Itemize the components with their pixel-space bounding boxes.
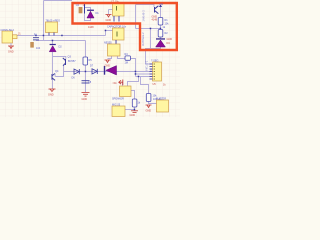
resistor R2 <box>158 30 163 38</box>
ground Gb <box>146 105 152 108</box>
wire parallel branch <box>150 29 152 49</box>
svg-text:1M: 1M <box>125 62 128 65</box>
ground under C7 <box>106 15 112 18</box>
wire Q3 to Q4 <box>55 66 63 77</box>
svg-text:4148: 4148 <box>88 26 94 29</box>
connector J1 <box>2 31 17 43</box>
svg-text:NE555: NE555 <box>104 42 112 45</box>
wire NE555 pin left <box>108 56 112 59</box>
diode D4 <box>156 38 166 47</box>
capacitor C8 <box>82 81 90 83</box>
svg-text:GND: GND <box>146 110 152 113</box>
wire R6 to B3 <box>149 102 157 104</box>
wire row1 <box>17 35 106 37</box>
capacitor C6 plate <box>84 4 86 14</box>
box B3 <box>157 100 169 112</box>
wire IC pin5 feed <box>136 76 153 78</box>
svg-text:CAPACITOR 16v: CAPACITOR 16v <box>107 26 127 29</box>
ground near U3 <box>105 60 111 63</box>
resistor R6 <box>146 94 151 102</box>
wire to capacitor box <box>106 31 113 36</box>
capacitor C7 <box>113 3 125 22</box>
svg-text:1N4148-D: 1N4148-D <box>142 10 145 22</box>
svg-text:4148: 4148 <box>152 19 158 22</box>
wire speaker right pin <box>131 91 135 100</box>
wire power arrow Q1 <box>160 7 162 14</box>
wire node row red box <box>136 28 161 30</box>
ground Ga <box>131 111 138 113</box>
svg-text:MIC-25: MIC-25 <box>112 104 121 107</box>
svg-text:GND: GND <box>105 65 111 68</box>
wire top loop vertical <box>43 1 45 41</box>
svg-text:IN/CLK-1: IN/CLK-1 <box>145 60 148 71</box>
transistor Q4 <box>52 73 55 80</box>
timer U3 NE555 <box>108 44 121 56</box>
ground under J1 stub <box>10 43 12 46</box>
diode D1 <box>87 10 94 18</box>
red selection box <box>73 3 177 50</box>
resistor Ra <box>132 99 137 107</box>
wire Q4 to ground <box>52 80 54 90</box>
svg-text:CONN-SIL2: CONN-SIL2 <box>1 29 15 32</box>
wire C6 D1 loop <box>85 4 91 21</box>
wire C7 gnd <box>109 9 113 11</box>
transistor Q1 <box>155 6 159 14</box>
IC U5 <box>150 62 162 81</box>
wire D5 to node <box>131 59 136 77</box>
resistor D5 <box>125 56 131 60</box>
wire top loop horizontal <box>44 0 73 2</box>
wire speaker pin to power <box>122 83 124 87</box>
svg-text:SPEAKER: SPEAKER <box>112 98 124 101</box>
diode D3 <box>104 66 117 75</box>
wire row2 <box>36 40 86 42</box>
svg-text:GND: GND <box>8 51 14 54</box>
capacitor C5 box <box>113 28 125 44</box>
svg-text:GND: GND <box>48 94 54 97</box>
svg-text:GND: GND <box>82 98 88 101</box>
speaker LS1 <box>120 86 132 97</box>
power arrow +9v <box>159 4 162 7</box>
wire B2 pin <box>125 109 135 111</box>
diode D6 outline <box>74 69 79 74</box>
ground G1 <box>82 93 90 97</box>
resistor R1 <box>158 18 163 26</box>
wire IC pin4 feed <box>136 73 153 75</box>
wire R5 branch vertical <box>85 41 87 93</box>
svg-text:GND: GND <box>167 38 173 41</box>
wire Q1 top feed <box>136 5 155 8</box>
svg-text:GND: GND <box>130 114 136 117</box>
wire Ra to ground <box>134 107 136 111</box>
svg-text:BC557: BC557 <box>68 60 76 63</box>
wire NE555 pin right <box>118 56 126 59</box>
wire R6 feed <box>141 77 149 94</box>
svg-text:78L05 +REG: 78L05 +REG <box>46 20 61 23</box>
svg-text:7-SEG: 7-SEG <box>151 60 159 63</box>
wire D2 chain <box>52 41 54 45</box>
resistor R5 <box>83 57 88 65</box>
box B2 <box>112 106 125 117</box>
wire R1 chain <box>160 14 162 18</box>
wire Q4 base <box>52 57 54 75</box>
junction node dots <box>35 28 161 111</box>
svg-text:GND: GND <box>106 19 112 22</box>
transistor Q3 <box>63 58 66 66</box>
wire Q3 branch <box>53 57 66 60</box>
power arrow +9v left <box>119 80 123 86</box>
wire top node vertical <box>135 5 137 29</box>
svg-text:104: 104 <box>36 47 41 50</box>
wire row3 <box>64 69 153 72</box>
wire speaker pin2 up <box>128 77 139 87</box>
svg-text:BUZZER: BUZZER <box>156 98 166 101</box>
capacitor C6 tan body <box>79 7 83 13</box>
regulator U2 78L05 <box>46 22 58 36</box>
capacitor C2 tan body <box>30 42 34 48</box>
diode D7 outline <box>92 69 97 74</box>
wire D4 to IC pin1 <box>146 47 161 64</box>
capacitor C2 midleft plates <box>33 38 39 40</box>
ground under J1 <box>8 46 14 49</box>
svg-text:OUT/SEG-2: OUT/SEG-2 <box>142 32 145 46</box>
ground under Q4 <box>49 89 56 92</box>
diode D2 <box>49 44 56 52</box>
